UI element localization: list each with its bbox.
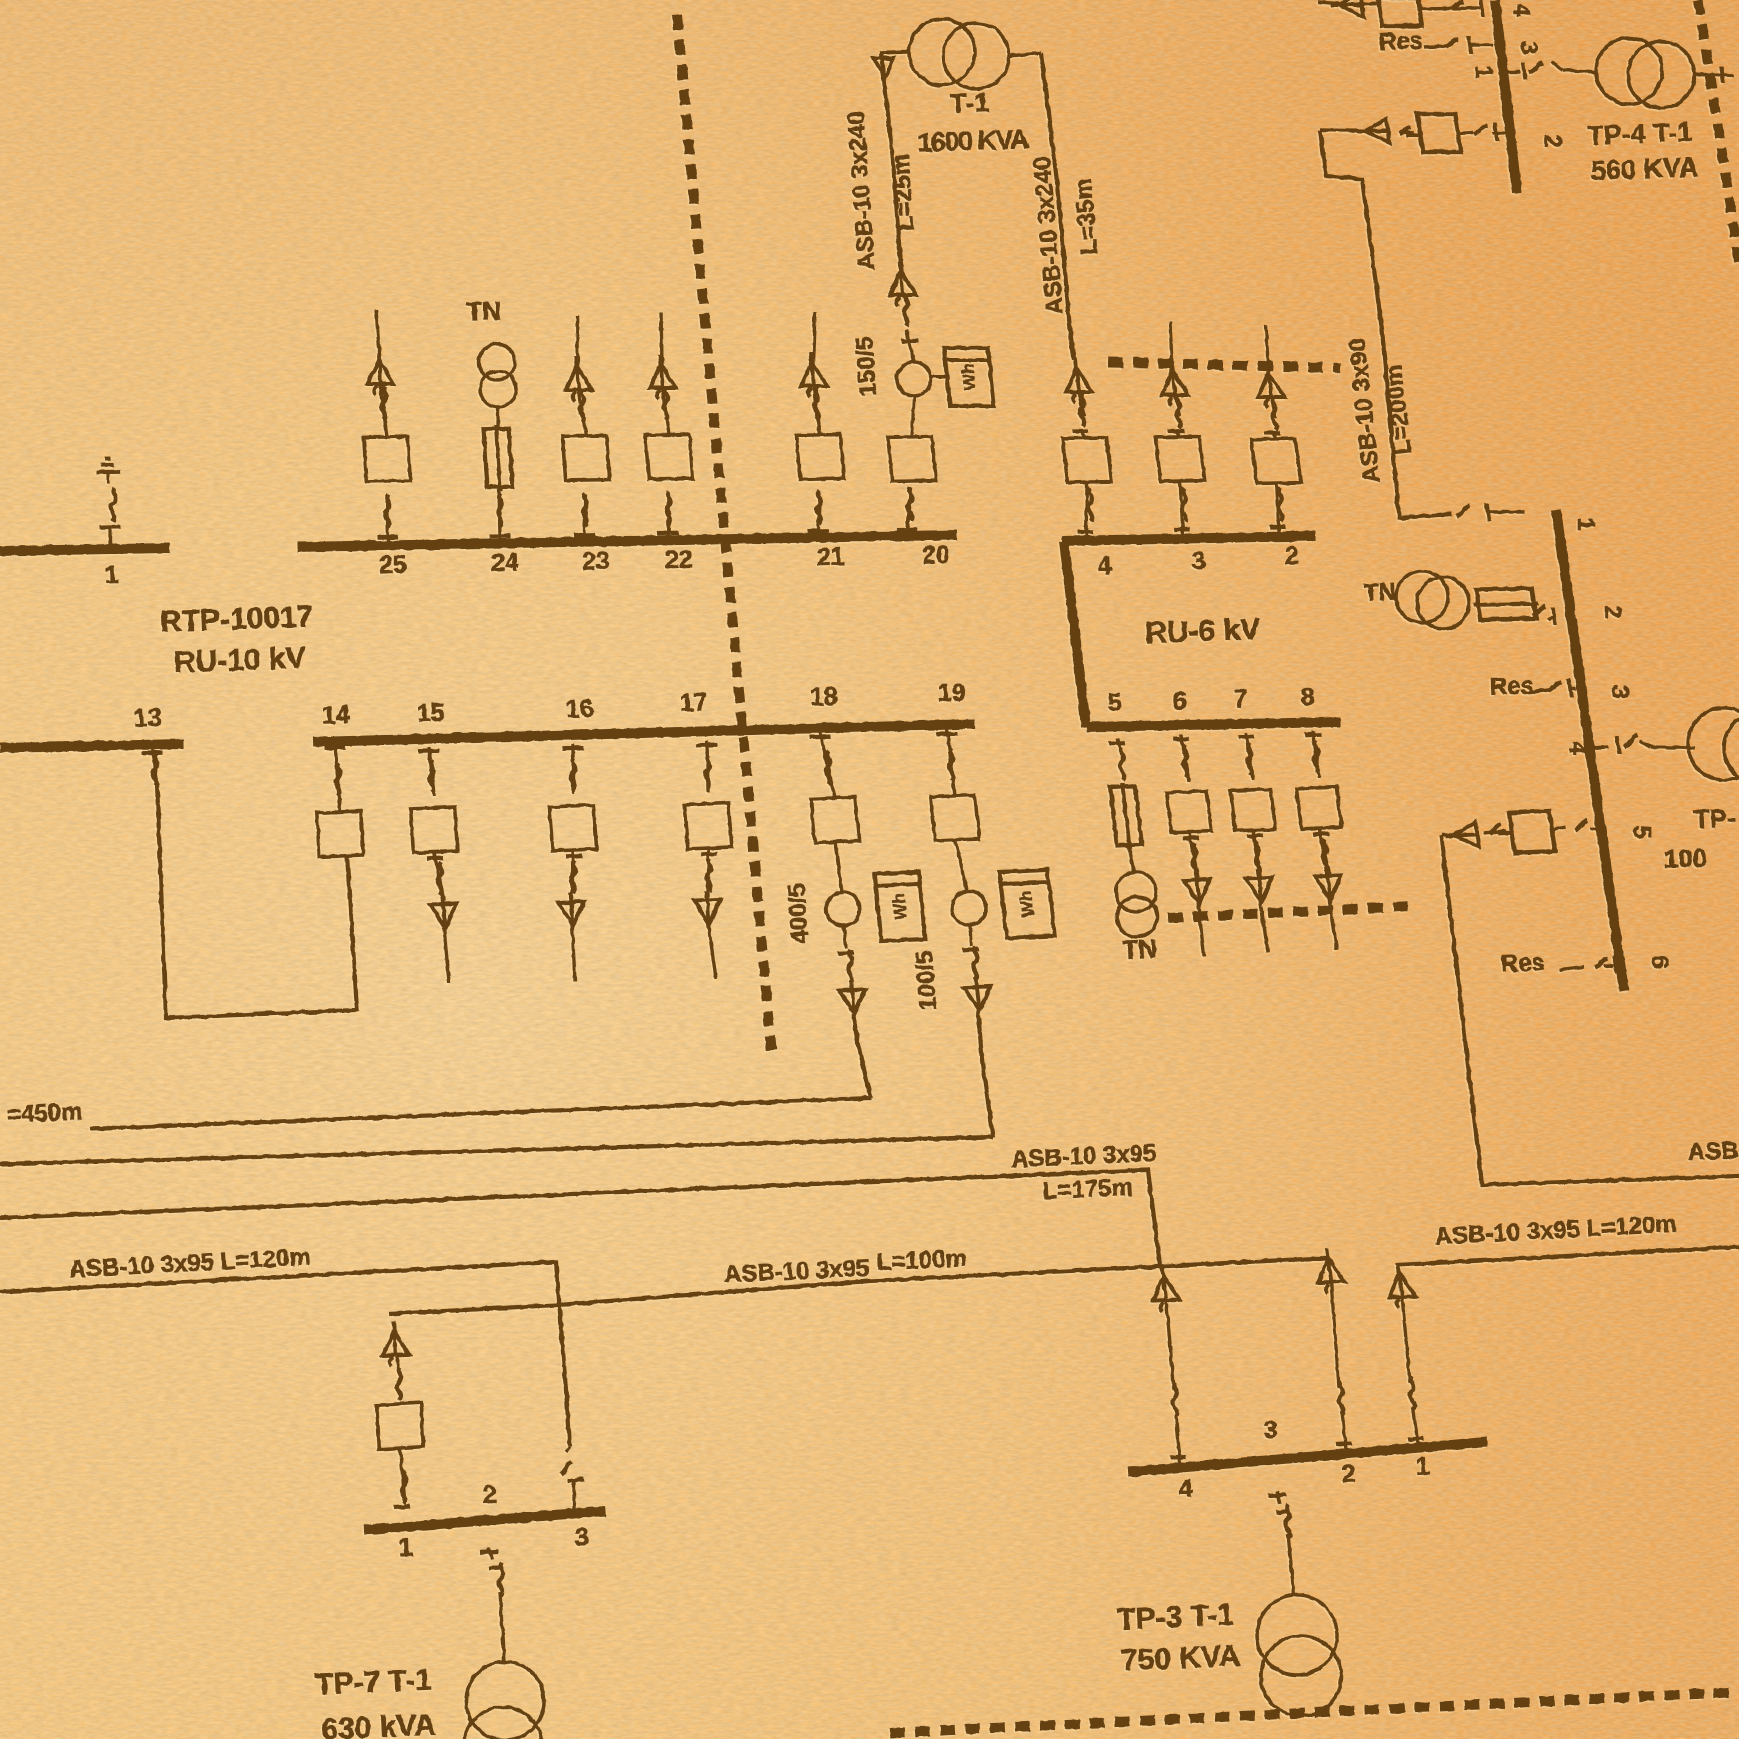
busbar RTP sections 25-20 — [297, 535, 957, 547]
svg-text:Res: Res — [1378, 27, 1423, 56]
svg-text:16: 16 — [565, 695, 594, 724]
cable arrow feeder 19 — [963, 977, 992, 1011]
svg-text:L=25m: L=25m — [887, 153, 919, 231]
RU6 cell 7 — [1238, 735, 1254, 740]
svg-text:4: 4 — [1564, 741, 1591, 755]
dashed line top-right corner — [1698, 0, 1739, 262]
transformer TP-3 T-1 — [1257, 1595, 1337, 1675]
svg-text:Res: Res — [1489, 672, 1534, 701]
busbar RU-6kV lower — [1086, 722, 1341, 727]
feeder 23 — [574, 533, 595, 538]
TP-3 transformer feeder — [1268, 1494, 1286, 1495]
svg-text:4: 4 — [1097, 552, 1112, 580]
svg-text:20: 20 — [921, 541, 950, 570]
feeder 22 — [658, 531, 679, 536]
busbar top-right vertical — [1495, 0, 1517, 193]
RU6 cell 6 — [1173, 737, 1189, 742]
RU6 cell 3 — [1170, 322, 1172, 363]
busbar RU-6kV upper — [1062, 536, 1315, 541]
CT 150/5 on T-1 feeder — [897, 362, 931, 396]
top bus cell 4 feeder — [1378, 0, 1422, 26]
TP-7 feeder 1 with arrester and breaker — [381, 1320, 410, 1366]
cable run ASB-10 3x95 L=120m left — [0, 1262, 570, 1447]
svg-text:3: 3 — [574, 1523, 589, 1551]
svg-text:2: 2 — [1539, 134, 1566, 147]
kWh meter on T-1 feeder — [931, 376, 947, 379]
feeder 13 with tie loop to feeder 14 — [142, 751, 163, 756]
svg-text:3: 3 — [1191, 547, 1206, 575]
cable run ASB-10 3x95 L=120m right — [1397, 1247, 1739, 1265]
arrester on T-1 feeder — [887, 261, 917, 306]
svg-text:Wh: Wh — [1016, 890, 1038, 917]
svg-text:2: 2 — [482, 1481, 497, 1509]
feeder 20 / transformer T-1 circuit — [897, 528, 918, 533]
transformer TP right edge — [1688, 708, 1739, 780]
svg-text:2: 2 — [1284, 542, 1299, 570]
cable ASB-10 3x240 L=35m wire — [1009, 53, 1041, 56]
svg-text:TN: TN — [1363, 578, 1396, 606]
svg-text:7: 7 — [1233, 685, 1248, 713]
svg-text:400/5: 400/5 — [783, 883, 814, 945]
busbar RU-6kV left side — [1064, 541, 1086, 727]
feeder 18 with CT 400/5 and meter — [810, 735, 831, 740]
svg-text:100/5: 100/5 — [911, 950, 942, 1012]
RU6 cell 4 (from T-1) arrester+breaker — [1062, 358, 1093, 403]
CT 100/5 — [952, 891, 986, 925]
svg-text:RU-6 kV: RU-6 kV — [1145, 613, 1261, 650]
cable run to feeder 19 (second line) — [0, 1137, 993, 1164]
feeder 24 TN voltage transformer — [490, 534, 511, 539]
CT 400/5 — [826, 892, 860, 926]
svg-text:1: 1 — [1415, 1453, 1430, 1481]
svg-text:2: 2 — [1599, 605, 1626, 618]
svg-text:1: 1 — [398, 1534, 413, 1562]
svg-text:3: 3 — [1263, 1416, 1278, 1444]
svg-text:5: 5 — [1107, 689, 1122, 717]
svg-text:1600 KVA: 1600 KVA — [917, 124, 1030, 158]
svg-text:Wh: Wh — [889, 893, 911, 920]
svg-text:630 kVA: 630 kVA — [321, 1709, 437, 1739]
svg-text:100: 100 — [1663, 843, 1707, 874]
svg-text:22: 22 — [664, 545, 693, 574]
svg-text:5: 5 — [1628, 825, 1655, 838]
svg-text:1: 1 — [1572, 517, 1599, 530]
TP-3 feeder 2 (from L=100m) — [1314, 1247, 1346, 1293]
svg-text:17: 17 — [679, 689, 708, 718]
svg-text:Res: Res — [1500, 949, 1545, 978]
svg-text:T-1: T-1 — [950, 87, 990, 118]
dashed sectioning line vertical — [677, 15, 772, 1060]
dashed bus above RU6 — [1108, 362, 1341, 368]
svg-text:1: 1 — [104, 561, 119, 589]
svg-text:8: 8 — [1300, 683, 1315, 711]
busbar TP-3 — [1128, 1442, 1487, 1472]
svg-text:13: 13 — [133, 704, 162, 733]
feeder 17 with cable arrow — [697, 743, 718, 748]
dashed line bottom right — [890, 1692, 1739, 1733]
svg-text:23: 23 — [581, 547, 610, 576]
right bus cell 1 switch — [1455, 506, 1470, 516]
svg-text:TN: TN — [1122, 933, 1158, 964]
svg-text:3: 3 — [1515, 41, 1542, 54]
transformer TP-4 T-1 — [1596, 38, 1662, 104]
transformer T-1 — [909, 19, 975, 85]
cable run ASB-10 3x95 L=100m — [389, 1258, 1327, 1314]
TP-3 feeder 1 (from L=120m) — [1385, 1262, 1417, 1308]
svg-text:18: 18 — [809, 683, 838, 712]
TP-3 feeder 4 (from L=175m) — [1149, 1265, 1180, 1311]
svg-text:L=100m: L=100m — [876, 1245, 967, 1276]
svg-text:6: 6 — [1646, 955, 1673, 968]
feeder 14 switch and breaker — [325, 746, 346, 751]
feeder 21 — [808, 529, 829, 534]
svg-text:21: 21 — [816, 543, 845, 572]
incoming arrow at T-1 — [880, 52, 909, 53]
svg-text:4: 4 — [1508, 3, 1535, 17]
svg-text:14: 14 — [321, 701, 350, 730]
svg-text:TP-: TP- — [1693, 803, 1736, 834]
busbar RTP-10kV section 1 — [0, 548, 170, 551]
svg-text:RTP-10017: RTP-10017 — [159, 600, 313, 638]
svg-text:TP-3 T-1: TP-3 T-1 — [1117, 1598, 1235, 1636]
svg-text:19: 19 — [937, 679, 966, 708]
svg-text:2: 2 — [1341, 1460, 1356, 1488]
busbar RTP section 13 — [0, 744, 184, 748]
cable ASB-10 3x90 L=200m wire — [1320, 130, 1452, 518]
svg-text:24: 24 — [490, 548, 519, 577]
feeder 16 with cable arrow — [563, 746, 584, 751]
svg-text:6: 6 — [1172, 687, 1187, 715]
busbar TP-7 — [364, 1511, 606, 1530]
cable run L=450m — [90, 1098, 871, 1129]
cable arrow feeder 18 — [838, 980, 867, 1014]
svg-text:ASB-1: ASB-1 — [1687, 1136, 1739, 1165]
RU6 cell 2 — [1266, 325, 1268, 365]
feeder 15 with cable arrow — [419, 749, 440, 754]
cable ASB-10 3x240 L=25m wire — [881, 53, 901, 272]
svg-text:TP-4 T-1: TP-4 T-1 — [1587, 117, 1693, 151]
svg-text:150/5: 150/5 — [851, 336, 882, 398]
busbar RTP sections 14-19 — [313, 724, 975, 742]
svg-text:TP-7 T-1: TP-7 T-1 — [315, 1663, 433, 1701]
svg-text:Wh: Wh — [958, 364, 980, 390]
svg-text:3: 3 — [1606, 685, 1633, 698]
svg-text:4: 4 — [1178, 1475, 1193, 1503]
dashed bus below RU6 — [1168, 906, 1413, 918]
svg-text:RU-10 kV: RU-10 kV — [173, 642, 306, 680]
ground-switch on bus 1 — [95, 458, 120, 472]
kWh meter feeder 19 — [999, 870, 1054, 938]
RU6 cell 5 fuse and TN transformer — [1109, 741, 1125, 746]
svg-text:1: 1 — [1470, 65, 1497, 78]
RU6 cell 8 — [1305, 733, 1321, 738]
svg-text:25: 25 — [378, 550, 407, 579]
kWh meter feeder 18 — [875, 872, 926, 941]
busbar right vertical — [1556, 510, 1624, 991]
svg-text:TN: TN — [466, 295, 502, 326]
feeder 25 (switch, breaker, arrester) — [378, 535, 399, 540]
svg-text:=450m: =450m — [6, 1098, 83, 1128]
svg-text:L=175m: L=175m — [1042, 1174, 1133, 1205]
cable run ASB-10 3x95 L=175m — [0, 1170, 1164, 1277]
transformer TP-7 T-1 — [466, 1662, 544, 1739]
feeder 19 with CT 100/5 and meter — [937, 732, 958, 737]
cable feeder loop to lower right — [1441, 835, 1739, 1185]
svg-text:15: 15 — [416, 699, 445, 728]
svg-text:750 KVA: 750 KVA — [1120, 1639, 1241, 1677]
svg-text:560 KVA: 560 KVA — [1590, 152, 1699, 186]
